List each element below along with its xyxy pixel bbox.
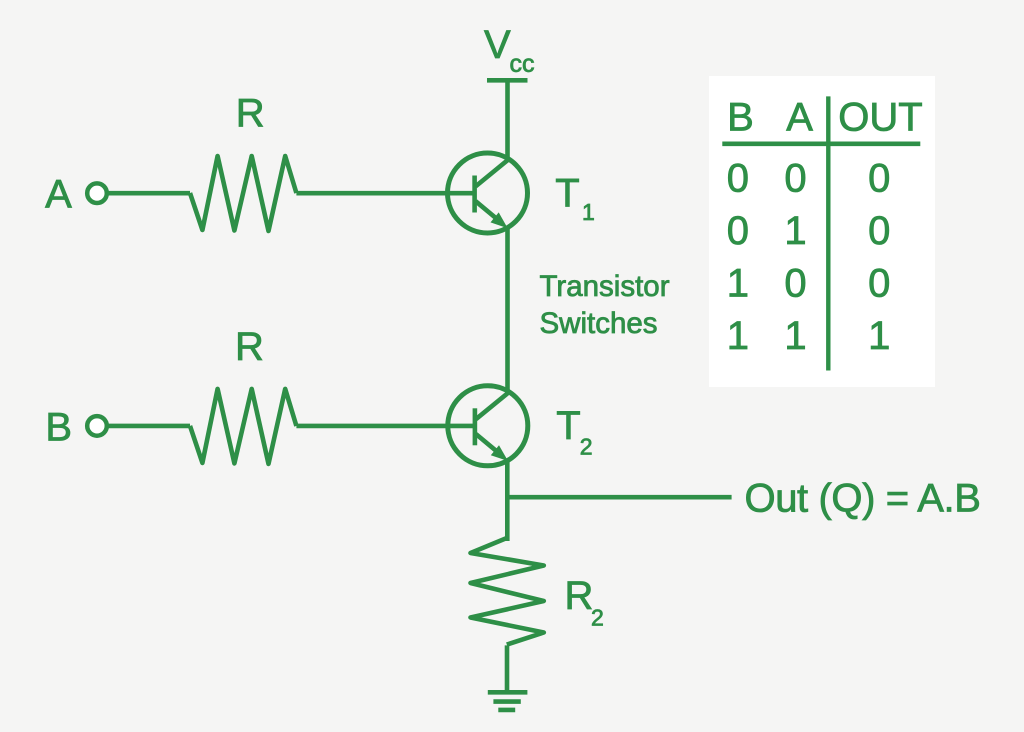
row 0 1 0 <box>727 209 891 253</box>
svg-text:B: B <box>727 95 754 139</box>
Vcc power bar <box>487 78 528 83</box>
svg-text:T: T <box>555 172 579 216</box>
svg-text:1: 1 <box>727 262 749 306</box>
svg-text:R: R <box>565 574 594 618</box>
svg-text:0: 0 <box>868 157 890 201</box>
svg-text:A: A <box>45 172 72 216</box>
svg-text:A: A <box>786 95 813 139</box>
table header underline <box>722 141 920 146</box>
svg-text:2: 2 <box>591 605 604 631</box>
svg-text:1: 1 <box>784 314 806 358</box>
svg-text:Transistor: Transistor <box>540 270 670 303</box>
wire R2 to ground <box>505 645 510 692</box>
svg-text:B: B <box>45 405 72 449</box>
svg-text:cc: cc <box>510 50 535 78</box>
wire T1 emitter to T2 collector <box>505 227 510 395</box>
terminal A <box>87 183 107 203</box>
label R2 <box>565 574 604 631</box>
wire A to resistor R <box>107 191 190 196</box>
svg-text:0: 0 <box>784 157 806 201</box>
svg-text:2: 2 <box>580 434 593 460</box>
svg-text:0: 0 <box>868 209 890 253</box>
table vertical divider <box>826 96 830 370</box>
svg-text:T: T <box>556 404 580 448</box>
transistor T1 <box>448 153 528 233</box>
wire B to resistor R <box>107 424 190 429</box>
resistor R (input A) <box>190 156 296 231</box>
terminal B <box>87 416 107 436</box>
svg-text:0: 0 <box>727 209 749 253</box>
wire resistor R to T2 base <box>296 424 475 429</box>
svg-text:V: V <box>484 23 511 67</box>
svg-text:1: 1 <box>868 314 890 358</box>
label T2 <box>556 404 592 459</box>
resistor R2 <box>471 538 544 645</box>
svg-text:0: 0 <box>868 262 890 306</box>
table header row <box>727 95 923 139</box>
resistor R (input B) <box>190 389 296 464</box>
wire Vcc bar to T1 collector <box>505 80 510 160</box>
label T1 <box>555 172 595 226</box>
svg-text:0: 0 <box>727 157 749 201</box>
row 1 0 0 <box>727 262 891 306</box>
ground <box>488 692 528 710</box>
svg-text:Out (Q) = A.B: Out (Q) = A.B <box>745 476 981 520</box>
wire T2 emitter to output node <box>505 460 510 542</box>
svg-text:R: R <box>235 325 264 369</box>
table rows <box>727 157 891 359</box>
svg-text:OUT: OUT <box>838 95 922 139</box>
transistor T2 <box>448 386 528 466</box>
label Transistor Switches <box>540 270 670 340</box>
svg-text:0: 0 <box>784 262 806 306</box>
table background box <box>709 76 935 387</box>
svg-text:Switches: Switches <box>540 307 658 340</box>
wire output node to label <box>507 495 731 500</box>
row 0 0 0 <box>727 157 891 201</box>
svg-text:1: 1 <box>727 314 749 358</box>
truth table <box>709 76 935 387</box>
row 1 1 1 <box>727 314 891 358</box>
svg-text:1: 1 <box>582 199 595 225</box>
svg-text:R: R <box>236 92 265 136</box>
wire resistor R to T1 base <box>296 191 474 196</box>
label Vcc <box>484 23 535 78</box>
svg-text:1: 1 <box>784 209 806 253</box>
